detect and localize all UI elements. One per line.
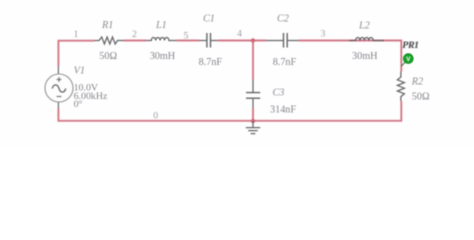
svg-text:3: 3 — [321, 29, 326, 40]
svg-text:R2: R2 — [411, 77, 423, 88]
svg-text:4: 4 — [237, 29, 242, 40]
svg-text:8.7nF: 8.7nF — [199, 57, 223, 68]
svg-text:8.7nF: 8.7nF — [273, 57, 297, 68]
svg-text:0°: 0° — [74, 99, 83, 110]
svg-text:50Ω: 50Ω — [412, 91, 430, 102]
svg-text:2: 2 — [132, 29, 137, 40]
svg-text:C2: C2 — [277, 13, 289, 24]
svg-text:314nF: 314nF — [270, 104, 296, 115]
svg-text:30mH: 30mH — [352, 51, 378, 62]
svg-text:L1: L1 — [155, 20, 167, 31]
svg-text:0: 0 — [153, 111, 158, 122]
svg-text:C1: C1 — [203, 13, 215, 24]
svg-text:V1: V1 — [74, 66, 85, 77]
svg-text:R1: R1 — [101, 20, 113, 31]
svg-text:30mH: 30mH — [150, 51, 176, 62]
svg-text:PR1: PR1 — [402, 41, 419, 51]
svg-text:L2: L2 — [358, 21, 370, 32]
svg-text:C3: C3 — [273, 87, 285, 98]
svg-text:V: V — [406, 56, 411, 63]
svg-text:5: 5 — [184, 30, 189, 41]
svg-text:1: 1 — [74, 29, 79, 40]
svg-text:50Ω: 50Ω — [99, 51, 117, 62]
